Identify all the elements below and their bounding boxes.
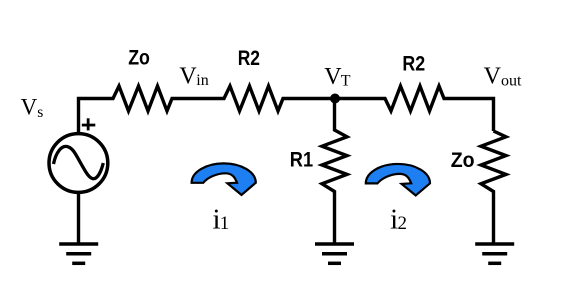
svg-text:R1: R1 — [290, 148, 314, 171]
svg-text:s: s — [37, 104, 43, 121]
svg-text:V: V — [179, 63, 197, 89]
svg-text:in: in — [196, 72, 208, 89]
svg-text:R2: R2 — [402, 52, 425, 75]
svg-text:1: 1 — [220, 213, 230, 234]
svg-text:V: V — [21, 95, 38, 120]
svg-text:T: T — [341, 72, 351, 89]
svg-text:V: V — [324, 64, 342, 90]
svg-text:2: 2 — [398, 213, 408, 234]
svg-text:Zo: Zo — [451, 149, 475, 172]
svg-text:out: out — [501, 72, 522, 89]
svg-text:R2: R2 — [238, 47, 260, 70]
svg-text:Zo: Zo — [128, 47, 150, 70]
svg-text:V: V — [484, 64, 502, 90]
